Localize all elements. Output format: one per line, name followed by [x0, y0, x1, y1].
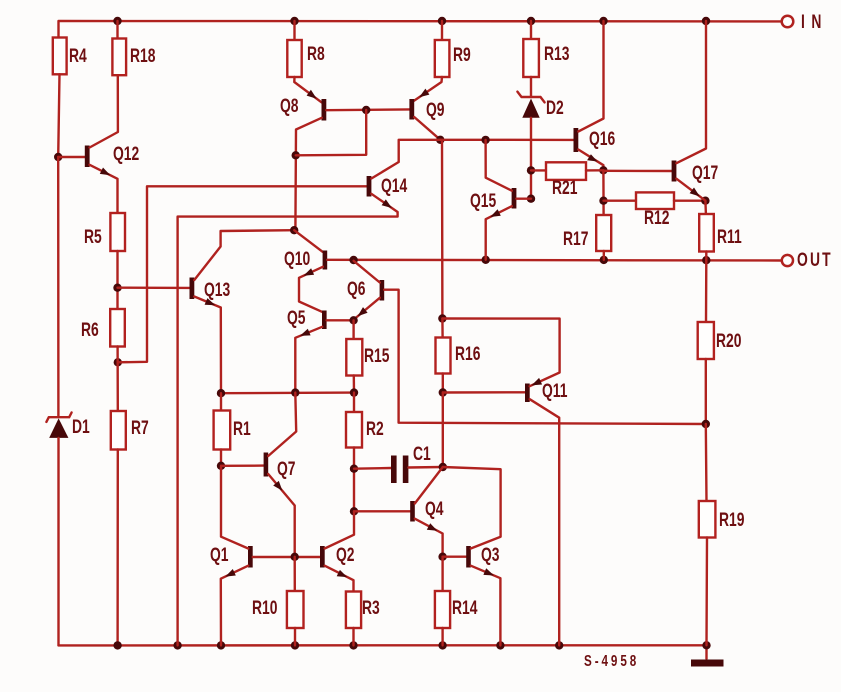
svg-text:R1: R1	[233, 418, 251, 440]
transistor Q4	[354, 510, 410, 512]
node R12 left	[599, 197, 607, 205]
node ground rail R14	[438, 641, 446, 649]
node top rail R9	[438, 17, 446, 25]
wire Q2 collector up to Q4 base node	[325, 511, 354, 548]
diode D1 zener	[57, 157, 60, 416]
wire Q1 base to Q2 base	[253, 556, 320, 558]
svg-text:R2: R2	[366, 418, 384, 440]
svg-text:Q8: Q8	[280, 95, 299, 117]
wire R6 node to Q14 base	[118, 186, 367, 362]
node R16 bottom Q11 base	[439, 388, 447, 396]
resistor R14	[441, 557, 443, 591]
wire Q7 emitter	[268, 474, 295, 557]
node top rail R8	[290, 17, 298, 25]
wire Q7 collector	[268, 393, 296, 456]
wire Q16 emitter	[578, 150, 603, 171]
svg-text:Q1: Q1	[210, 544, 229, 566]
transistor Q9	[414, 77, 442, 101]
resistor R19	[705, 424, 708, 501]
wire Q1 collector up to R1 node	[221, 466, 248, 549]
wire Q11 emitter down to ground rail	[530, 399, 560, 645]
wire Q13 collector	[194, 230, 294, 280]
resistor R10	[294, 557, 296, 591]
wire Q6 base down and right	[384, 290, 706, 424]
svg-text:R6: R6	[81, 319, 99, 341]
transistor Q5	[322, 311, 327, 330]
node C1 right Q4 collector	[439, 463, 447, 471]
wire Q1 emitter	[221, 566, 248, 646]
wire D2 anode down to Q15 base	[530, 118, 532, 199]
node R20 bottom	[702, 420, 710, 428]
node top rail Q17	[702, 17, 710, 25]
transistor Q1	[248, 546, 253, 568]
resistor R18	[116, 21, 118, 39]
transistor Q15	[512, 188, 517, 209]
svg-text:R3: R3	[362, 597, 380, 619]
svg-text:Q2: Q2	[336, 544, 355, 566]
wire Q15 base	[516, 197, 531, 199]
resistor R20	[705, 260, 708, 322]
wire Q16 collector to top rail	[578, 21, 603, 132]
wire R5 to R6	[116, 251, 118, 309]
wire Q8 base to Q9 base	[326, 108, 409, 111]
wire Q4 emitter	[415, 519, 443, 557]
resistor R6	[110, 309, 125, 347]
svg-text:R8: R8	[307, 43, 325, 65]
wire R15 bottom	[353, 376, 356, 393]
svg-text:D2: D2	[546, 97, 564, 119]
node Q12 base	[54, 153, 62, 161]
wire R15 node line	[221, 391, 354, 394]
node ground rail R10	[291, 641, 299, 649]
wire OUT rail	[327, 259, 782, 262]
transistor Q7	[221, 464, 264, 467]
svg-text:OUT: OUT	[797, 249, 833, 271]
wire Q3 emitter	[471, 566, 501, 646]
transistor Q13	[118, 287, 190, 290]
resistor R7	[111, 411, 126, 450]
svg-text:Q13: Q13	[204, 279, 230, 301]
wire Q5 emitter	[295, 327, 322, 393]
node Q17 emitter R11	[701, 197, 709, 205]
svg-text:Q5: Q5	[287, 307, 306, 329]
terminal OUT	[782, 255, 793, 266]
wire R7 bottom to ground rail	[116, 450, 119, 646]
svg-text:R14: R14	[452, 597, 478, 619]
svg-text:R5: R5	[84, 226, 102, 248]
wire Q2 emitter to R3	[325, 566, 354, 592]
svg-text:R19: R19	[719, 509, 744, 531]
wire Q6 emitter	[354, 298, 380, 320]
node Q9 collector	[436, 136, 444, 144]
resistor R8	[293, 21, 295, 40]
node Q8 base tie	[362, 106, 370, 114]
transistor Q12	[85, 146, 90, 168]
capacitor C1	[354, 467, 391, 470]
wire Q10 emitter to Q5	[299, 267, 323, 312]
transistor Q3	[443, 556, 467, 558]
node Q5 emitter Q7 collector	[291, 388, 299, 396]
node Q7 emitter R10	[291, 553, 299, 561]
svg-text:Q7: Q7	[277, 458, 296, 480]
node ground rail R3	[349, 641, 357, 649]
node OUT rail Q6	[349, 256, 357, 264]
wire Q3 collector loop to C1 node	[443, 467, 501, 549]
transistor Q11	[443, 391, 525, 394]
node OUT rail R17	[600, 256, 608, 264]
node R1 bottom Q7 base	[217, 462, 225, 470]
node top rail R13	[527, 17, 535, 25]
wire Q17 collector to top rail	[676, 21, 706, 163]
svg-text:R7: R7	[131, 417, 149, 439]
transistor Q10	[294, 230, 322, 252]
wire R2 bottom to Q4 base node	[353, 448, 355, 512]
node ground rail R7	[113, 641, 121, 649]
wire Q5 base	[327, 319, 354, 321]
node OUT rail Q15 emitter	[482, 256, 490, 264]
svg-text:Q3: Q3	[481, 544, 500, 566]
svg-text:R20: R20	[716, 330, 741, 352]
resistor R2	[353, 393, 355, 412]
wire Q14 collector	[371, 140, 440, 179]
svg-text:Q15: Q15	[470, 190, 496, 212]
transistor Q16	[574, 128, 579, 152]
node top rail Q16	[599, 17, 607, 25]
node Q15 base	[527, 195, 535, 203]
node R5-R6 Q13 base	[113, 284, 121, 292]
resistor R12	[604, 199, 637, 201]
svg-text:Q6: Q6	[347, 278, 366, 300]
wire Q11 collector loop to R16 top	[442, 319, 559, 387]
ground symbol	[705, 645, 707, 659]
svg-text:Q4: Q4	[425, 498, 444, 520]
svg-text:IN: IN	[801, 11, 828, 33]
diode D2 zener	[530, 77, 532, 97]
resistor R3	[346, 592, 361, 629]
wire R16 bottom to C1 node	[442, 393, 444, 468]
node Q10 collector tie	[290, 226, 298, 234]
svg-text:Q16: Q16	[589, 128, 615, 150]
wire Q6 collector to OUT node	[354, 261, 380, 283]
resistor R15	[352, 320, 354, 339]
svg-text:R15: R15	[364, 345, 389, 367]
node top rail R18	[113, 17, 121, 25]
transistor Q6	[380, 280, 385, 301]
svg-text:Q10: Q10	[284, 248, 310, 270]
svg-text:Q12: Q12	[113, 143, 139, 165]
node R6 bottom	[114, 358, 122, 366]
svg-text:Q11: Q11	[542, 380, 567, 402]
svg-text:D1: D1	[72, 416, 90, 438]
node ground rail Q11	[555, 641, 563, 649]
wire R6 bottom to R7	[116, 347, 119, 412]
svg-text:Q9: Q9	[426, 99, 445, 121]
terminal IN	[782, 16, 794, 28]
resistor R5	[110, 213, 125, 251]
node Q5 base R15	[349, 316, 357, 324]
resistor R1	[220, 393, 222, 410]
resistor R21	[531, 169, 546, 171]
wire R4 bottom to Q12 base node	[58, 74, 59, 157]
svg-text:R9: R9	[453, 44, 471, 66]
transistor Q2	[320, 546, 325, 568]
node C1 left	[350, 465, 358, 473]
node ground rail Q1	[217, 641, 225, 649]
resistor R9	[441, 21, 443, 40]
node ground rail Q3	[496, 641, 504, 649]
wire Q4 collector	[415, 467, 443, 504]
svg-text:R13: R13	[544, 43, 569, 65]
svg-text:Q17: Q17	[692, 162, 718, 184]
node ground rail R19	[702, 641, 710, 649]
node Q13 emitter R1	[217, 389, 225, 397]
node OUT rail R11	[702, 256, 710, 264]
svg-text:R18: R18	[130, 45, 155, 67]
node Q4 emitter Q3 base R14	[438, 553, 446, 561]
wire Q12 base	[58, 156, 85, 158]
svg-text:R10: R10	[252, 597, 277, 619]
node Q8 collector	[292, 151, 300, 159]
node ground rail Q14 emitter line	[173, 641, 181, 649]
wire Q9 collector	[414, 117, 440, 140]
svg-text:S-4958: S-4958	[584, 651, 639, 669]
svg-text:C1: C1	[413, 443, 431, 465]
wire Q17 emitter	[676, 179, 705, 201]
resistor R13	[530, 21, 532, 39]
wire Q8 diode tie loop	[296, 110, 367, 155]
resistor R4	[53, 38, 67, 75]
svg-text:R11: R11	[717, 226, 742, 248]
transistor Q17	[603, 170, 671, 173]
wire Q15 emitter down to OUT rail	[486, 206, 512, 260]
node R21 left	[527, 166, 535, 174]
resistor R16	[441, 140, 444, 319]
svg-text:R4: R4	[69, 45, 87, 67]
wire Q13 emitter	[194, 297, 221, 394]
svg-text:R17: R17	[563, 228, 588, 250]
resistor R11	[704, 201, 707, 214]
wire Q15 collector up to base line	[486, 140, 512, 191]
svg-text:R16: R16	[455, 343, 480, 365]
node R15 R2	[350, 388, 358, 396]
svg-text:Q14: Q14	[381, 175, 408, 197]
node Q15 collector on base line	[481, 136, 489, 144]
resistor R17	[602, 170, 605, 215]
transistor Q8	[294, 77, 321, 102]
wire top supply rail	[59, 21, 782, 38]
node Q4 base Q2 collector	[350, 507, 358, 515]
wire ground rail	[59, 644, 707, 647]
wire Q14 emitter to left drop	[178, 194, 398, 646]
svg-text:R21: R21	[552, 177, 577, 199]
node Q16 emitter R21 right	[599, 166, 607, 174]
svg-text:R12: R12	[644, 207, 669, 229]
transistor Q14	[367, 176, 372, 197]
wire Q16 base line	[440, 139, 573, 141]
wire Q8 collector down	[295, 118, 321, 230]
